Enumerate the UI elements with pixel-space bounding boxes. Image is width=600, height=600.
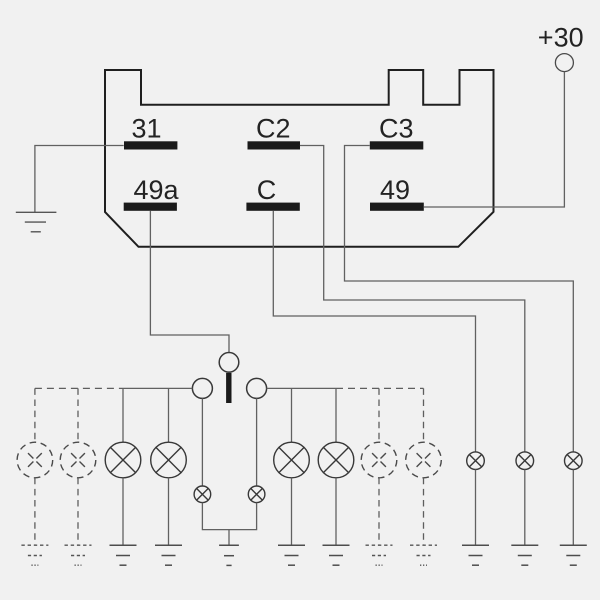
terminal circle +30 bbox=[555, 54, 573, 72]
wire bus to lamp L6 (right indicator) bbox=[335, 388, 337, 442]
ground of lamp L5 (right indicator) bbox=[278, 545, 305, 565]
svg-text:+30: +30 bbox=[538, 22, 584, 52]
ground of switch pilot lamps bbox=[219, 545, 239, 565]
switch pilot lamp left bbox=[194, 486, 211, 503]
wire +30 to terminal 49 bbox=[424, 72, 565, 207]
switch lever (black bar) bbox=[226, 373, 231, 403]
terminal bar C2 bbox=[248, 141, 301, 149]
wire joining switch pilot lamps to common ground bbox=[202, 503, 256, 546]
wire lamp L5 (right indicator) to ground bbox=[291, 478, 293, 545]
switch pilot lamp right bbox=[248, 486, 265, 503]
wire lamp L8 (trailer right, dashed) to ground bbox=[423, 478, 425, 545]
left bus wire dashed segment bbox=[35, 387, 123, 389]
wire bus to lamp L5 (right indicator) bbox=[291, 388, 293, 442]
terminal bar 49a bbox=[124, 203, 177, 211]
wire lamp L4 (left indicator) to ground bbox=[168, 478, 170, 545]
wire terminal 49a to switch pivot bbox=[150, 211, 229, 353]
lamp L3 (left indicator) bbox=[105, 442, 141, 478]
wire terminal C2 to right pilot lamp 2 bbox=[300, 146, 525, 452]
lamp L1 (trailer left, dashed) bbox=[17, 442, 53, 478]
wire lamp L1 (trailer left, dashed) to ground bbox=[34, 478, 36, 545]
ground of pilot lamp P1 (terminal C) bbox=[462, 545, 489, 565]
pilot lamp P3 (terminal C3) bbox=[565, 452, 583, 470]
ground of lamp L2 (trailer left, dashed) bbox=[65, 545, 92, 565]
wire right contact to switch pilot lamp right bbox=[256, 398, 258, 486]
ground (left, terminal 31) bbox=[16, 212, 57, 232]
wire lamp L2 (trailer left, dashed) to ground bbox=[77, 478, 79, 545]
terminal bar 31 bbox=[124, 141, 177, 149]
ground of lamp L4 (left indicator) bbox=[155, 545, 182, 565]
svg-text:C2: C2 bbox=[256, 113, 291, 143]
lamp L2 (trailer left, dashed) bbox=[60, 442, 96, 478]
right bus wire solid segment bbox=[267, 387, 336, 389]
ground of lamp L1 (trailer left, dashed) bbox=[21, 545, 48, 565]
right bus wire dashed segment bbox=[336, 387, 424, 389]
wire terminal C to right pilot lamp 1 bbox=[273, 211, 475, 452]
wire bus to lamp L8 (trailer right, dashed) bbox=[423, 388, 425, 442]
wire terminal 31 to ground bbox=[35, 146, 124, 213]
lamp L8 (trailer right, dashed) bbox=[406, 442, 442, 478]
wire bus to lamp L7 (trailer right, dashed) bbox=[378, 388, 380, 442]
left bus wire solid segment bbox=[123, 387, 192, 389]
svg-text:C3: C3 bbox=[379, 113, 414, 143]
wire bus to lamp L1 (trailer left, dashed) bbox=[34, 388, 36, 442]
ground of pilot lamp P2 (terminal C2) bbox=[511, 545, 538, 565]
wire left contact to switch pilot lamp left bbox=[201, 398, 203, 486]
switch left contact circle bbox=[192, 378, 212, 398]
wire pilot lamp P1 (terminal C) to ground bbox=[475, 470, 477, 546]
ground of lamp L8 (trailer right, dashed) bbox=[410, 545, 437, 565]
wire bus to lamp L3 (left indicator) bbox=[122, 388, 124, 442]
lamp L4 (left indicator) bbox=[151, 442, 187, 478]
lamp L7 (trailer right, dashed) bbox=[361, 442, 397, 478]
svg-text:49: 49 bbox=[380, 175, 410, 205]
switch pivot circle bbox=[219, 353, 239, 373]
wire terminal C3 to right pilot lamp 3 bbox=[345, 146, 574, 452]
wire lamp L3 (left indicator) to ground bbox=[122, 478, 124, 545]
svg-text:31: 31 bbox=[132, 113, 162, 143]
wire bus to lamp L2 (trailer left, dashed) bbox=[77, 388, 79, 442]
pilot lamp P2 (terminal C2) bbox=[516, 452, 534, 470]
wire lamp L7 (trailer right, dashed) to ground bbox=[378, 478, 380, 545]
ground of lamp L6 (right indicator) bbox=[323, 545, 350, 565]
lamp L5 (right indicator) bbox=[274, 442, 310, 478]
wire pilot lamp P3 (terminal C3) to ground bbox=[572, 470, 574, 546]
pilot lamp P1 (terminal C) bbox=[467, 452, 485, 470]
svg-text:C: C bbox=[257, 175, 277, 205]
terminal bar C3 bbox=[370, 141, 424, 149]
ground of pilot lamp P3 (terminal C3) bbox=[560, 545, 587, 565]
ground of lamp L7 (trailer right, dashed) bbox=[366, 545, 393, 565]
wire pilot lamp P2 (terminal C2) to ground bbox=[524, 470, 526, 546]
wire lamp L6 (right indicator) to ground bbox=[335, 478, 337, 545]
ground of lamp L3 (left indicator) bbox=[110, 545, 137, 565]
relay box outline U1 bbox=[105, 70, 494, 247]
terminal bar 49 bbox=[370, 203, 424, 211]
wire bus to lamp L4 (left indicator) bbox=[168, 388, 170, 442]
switch right contact circle bbox=[247, 378, 267, 398]
lamp L6 (right indicator) bbox=[318, 442, 354, 478]
terminal bar C bbox=[246, 203, 299, 211]
svg-text:49a: 49a bbox=[134, 175, 180, 205]
